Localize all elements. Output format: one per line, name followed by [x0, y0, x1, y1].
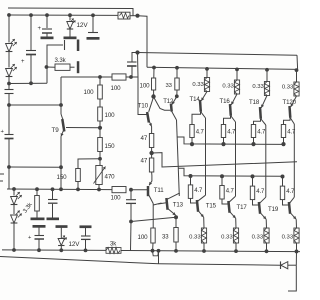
wire emitter drop T15 [203, 217, 205, 228]
wire to R6 [78, 159, 100, 169]
wire collector T18 [261, 119, 266, 194]
wire top inner rail [8, 14, 118, 16]
svg-text:4.7: 4.7 [286, 189, 295, 195]
node y68 x296.5 [295, 68, 299, 72]
wire rail bottom right [121, 251, 300, 252]
wire corner down right [288, 265, 296, 291]
LED D3 [11, 189, 22, 205]
node x78 y189 [76, 188, 80, 192]
node x177 y96 [175, 94, 179, 98]
svg-text:100: 100 [140, 83, 151, 90]
svg-text:0.33: 0.33 [192, 82, 204, 88]
node b x296 [295, 250, 299, 254]
wire collector join T21 [293, 194, 295, 197]
ground C11 [80, 225, 92, 228]
node b x85 [84, 249, 88, 253]
wire 4.7 to rail T18 [253, 138, 255, 145]
svg-text:4.7: 4.7 [256, 189, 265, 195]
svg-text:100: 100 [105, 112, 116, 119]
wire 4.7 to rail T14 [191, 138, 193, 145]
svg-text:33: 33 [166, 83, 173, 89]
zener D6 [58, 228, 67, 251]
wire left col mid [8, 105, 10, 134]
node rail144 x192.0 [190, 142, 194, 146]
wire T9 emitter drop [60, 167, 62, 189]
wire collector join T13 [178, 192, 180, 195]
resistor 0.33 lower T15 [189, 228, 206, 251]
wire T10-T12 base [154, 97, 171, 110]
wire D1-D2 [8, 52, 10, 68]
svg-text:0.33: 0.33 [252, 235, 264, 241]
svg-text:T9: T9 [52, 127, 60, 134]
node rail176 x252.5 [251, 174, 255, 178]
transistor T19 [259, 197, 279, 219]
wire rail y167 [9, 166, 61, 168]
diode D7 [281, 261, 288, 269]
wire top outer rail [8, 8, 133, 16]
wire D5 down [69, 29, 71, 37]
svg-text:0.33: 0.33 [189, 235, 201, 241]
wire collector T120 [290, 118, 294, 194]
node b x204 [202, 249, 206, 253]
node b x39 [37, 248, 41, 252]
node x131 y221 [129, 220, 133, 224]
wire 33 to node [176, 90, 178, 96]
capacitor C5 plate [77, 61, 80, 73]
svg-text:470: 470 [105, 174, 116, 181]
svg-text:0.33: 0.33 [252, 84, 264, 90]
wire 4.7 to rail T16 [223, 138, 225, 145]
wire x138 drop [138, 53, 148, 115]
svg-text:100: 100 [84, 89, 95, 96]
ground R8 [31, 218, 45, 221]
wire collector join T15 [205, 194, 207, 195]
transistor T11 [148, 176, 164, 229]
svg-text:33: 33 [162, 235, 169, 241]
resistor R14 100 [138, 228, 156, 251]
wire T12 collector col [177, 120, 180, 196]
wire x70 stub [69, 15, 71, 21]
wire x31 stub [30, 15, 32, 50]
wire y189 [7, 188, 112, 191]
node rail144 x283.5 [281, 142, 285, 146]
transistor T16 [220, 94, 238, 116]
node rail176 x222.0 [220, 174, 224, 178]
wire line2 right [159, 264, 281, 265]
svg-text:T15: T15 [206, 203, 217, 210]
node x131 y189 [129, 188, 133, 192]
node x99 y189 [97, 188, 101, 192]
svg-text:3.3k: 3.3k [22, 201, 34, 214]
node y52 x137 [135, 50, 139, 54]
node b x158 [157, 249, 161, 253]
wire x61 riser [60, 77, 62, 105]
wire jog under rail [153, 251, 159, 256]
resistor 0.33 upper T120 [282, 69, 299, 96]
transistor T120 [283, 96, 297, 118]
node y68 x237 [235, 67, 239, 71]
wire left col upper [8, 15, 10, 43]
capacitor C4 [65, 40, 80, 52]
node x37 y189 [35, 187, 39, 191]
capacitor C7 [1, 129, 14, 167]
resistor R8 3.3k [22, 189, 39, 217]
resistor R6 150 [57, 169, 81, 190]
capacitor C11 [81, 228, 91, 251]
node x61 y189 [59, 187, 63, 191]
transistor T9 [52, 105, 65, 167]
ground D5 [64, 37, 77, 40]
svg-text:12V: 12V [69, 241, 81, 248]
wire right edge stub [296, 55, 299, 69]
wire supply drop [138, 16, 148, 68]
svg-text:T11: T11 [154, 187, 164, 194]
transistor T15 [197, 195, 217, 217]
wire base T15 [191, 198, 197, 203]
resistor 4.7 lower T17 [220, 186, 235, 200]
wire emitter drop T21 [295, 219, 297, 228]
resistor R13 100h [111, 187, 127, 202]
svg-text:4.7: 4.7 [227, 130, 236, 136]
wire stub T17 [221, 176, 223, 186]
ground D6 [56, 225, 68, 228]
svg-text:4.7: 4.7 [226, 189, 235, 195]
wire drive rail lower [178, 168, 282, 176]
node rail x31 [29, 13, 33, 17]
node x131 y77 [129, 75, 133, 79]
svg-text:+: + [21, 59, 25, 65]
node rail176 x190.5 [189, 174, 193, 178]
wire C3 down [30, 55, 32, 83]
zener D5 [67, 19, 76, 30]
svg-text:+: + [38, 26, 42, 32]
node x14 y189 [12, 187, 16, 191]
wire collector T14 [201, 112, 206, 194]
node b x176 [174, 249, 178, 253]
wire D2 down [8, 77, 10, 84]
wire x47 stub [46, 15, 48, 28]
svg-text:4.7: 4.7 [196, 130, 205, 136]
svg-text:T19: T19 [268, 206, 279, 213]
capacitor C2 [88, 32, 98, 34]
svg-text:T17: T17 [237, 204, 248, 211]
wire base T13 [158, 203, 166, 204]
node x100 y77 [98, 75, 102, 79]
node y68 x207 [205, 67, 209, 71]
wire emitter drop T17 [235, 218, 237, 228]
svg-text:0.33: 0.33 [282, 235, 294, 241]
resistor R3 100 [84, 77, 103, 107]
node T10 collector [151, 94, 155, 98]
resistor R5 150 [98, 128, 115, 159]
transistor T12 [163, 97, 177, 121]
svg-text:100: 100 [138, 234, 149, 241]
svg-text:4.7: 4.7 [257, 130, 266, 136]
node b x266 [265, 249, 269, 253]
node T13 emitter [174, 215, 178, 219]
resistor R2 100h [111, 74, 127, 92]
wire rail bottom left [2, 249, 106, 252]
svg-text:150: 150 [105, 143, 116, 150]
resistor 0.33 lower T21 [282, 228, 299, 251]
terminal dashes [0, 174, 4, 181]
node x9 y105 [7, 103, 11, 107]
svg-text:0.33: 0.33 [221, 235, 233, 241]
node x31 y83 [29, 81, 33, 85]
wire x93 stub [92, 15, 94, 32]
node b x61 [59, 248, 63, 252]
wire output rail [152, 153, 297, 167]
trimmer R7 470 [94, 159, 116, 190]
wire output stub right [295, 252, 297, 266]
resistor 4.7 lower T21 [280, 186, 295, 200]
resistor 0.33 lower T17 [221, 228, 238, 251]
resistor R9 3k [106, 242, 121, 254]
wire T13 emitter down [175, 217, 177, 227]
wire y222 to T13 [131, 217, 176, 221]
ground C9 [47, 218, 60, 221]
svg-text:150: 150 [57, 174, 68, 181]
ground C1 [41, 37, 54, 40]
wire base T18 [254, 119, 261, 125]
node b x14 [12, 248, 16, 252]
resistor R12 47 [141, 153, 154, 176]
wire emitter drop T19 [265, 219, 267, 228]
node y68 x267 [265, 68, 269, 72]
svg-text:100: 100 [111, 85, 122, 92]
node x100 y159 [98, 157, 102, 161]
capacitor C12 [126, 190, 136, 222]
wire y77 end [131, 76, 138, 78]
label 12V top [77, 22, 89, 29]
wire line2 left [0, 257, 159, 264]
svg-text:T14: T14 [190, 96, 201, 103]
node supply A [135, 14, 139, 18]
svg-text:T16: T16 [220, 98, 231, 105]
node x52 y189 [51, 187, 55, 191]
wire base T17 [222, 199, 228, 204]
node rail x47 [45, 13, 49, 17]
wire base T21 [283, 200, 289, 205]
capacitor C3 [21, 51, 36, 66]
transistor T14 [190, 92, 208, 112]
wire R2 out [126, 76, 131, 78]
resistor R4 100 [98, 107, 115, 128]
wire D3-D4 [13, 205, 15, 215]
wire stub T19 [252, 176, 254, 186]
wire T11 emitter tee [153, 203, 161, 205]
node rail x93 [91, 13, 95, 17]
svg-text:T10: T10 [138, 103, 149, 110]
resistor 4.7 upper T16 [221, 125, 236, 138]
capacitor C1 [38, 26, 53, 33]
wire C12 drop [130, 222, 133, 251]
label 12V bottom [69, 241, 81, 248]
wire collector T16 [231, 116, 236, 194]
svg-text:0.33: 0.33 [282, 84, 294, 90]
wire line2 stub [158, 251, 160, 264]
resistor 4.7 upper T120 [281, 125, 296, 138]
resistor R15 33 [166, 68, 180, 90]
wire diode out [288, 264, 297, 266]
resistor R16 33 lower [162, 228, 178, 251]
resistor 4.7 upper T18 [251, 125, 266, 138]
wire drive rail upper [177, 137, 284, 144]
resistor R10 100 [140, 67, 156, 96]
svg-text:T18: T18 [249, 99, 260, 106]
wire base T16 [224, 116, 231, 125]
wire y83 [9, 82, 47, 84]
svg-text:3.3k: 3.3k [55, 57, 67, 64]
capacitor C6 [5, 84, 14, 106]
wire x9 drop [8, 167, 10, 189]
capacitor C9 [48, 189, 58, 217]
transistor T21 [289, 197, 296, 219]
transistor T18 [249, 96, 267, 119]
node rail x70 [68, 13, 72, 17]
wire rail y68 [147, 67, 298, 69]
wire y77 [61, 76, 112, 78]
node b x236 [234, 249, 238, 253]
node x61 y167 [59, 165, 63, 169]
node x9 y167 [7, 165, 11, 169]
node y68 x154 [152, 66, 156, 70]
svg-text:47: 47 [141, 135, 148, 142]
svg-text:T13: T13 [173, 201, 184, 208]
wire T9 base [66, 127, 100, 129]
LED D4 [11, 211, 22, 224]
fuse W2 [118, 12, 130, 19]
wire stub T21 [282, 176, 284, 186]
svg-text:4.7: 4.7 [194, 188, 203, 194]
node b x152 [151, 249, 155, 253]
wire base T19 [253, 200, 259, 205]
wire rail Vp y52 [138, 53, 298, 56]
wire stub T15 [190, 176, 192, 185]
LED D2 [6, 64, 17, 77]
ground C2 [87, 37, 100, 40]
wire y105 [9, 104, 61, 106]
resistor 4.7 lower T19 [250, 186, 265, 200]
node x47 y67 [45, 65, 49, 69]
wire base T120 [284, 118, 291, 125]
wire x47 riser [47, 45, 63, 83]
node rail x9 [7, 13, 11, 17]
svg-text:+: + [28, 235, 32, 241]
transistor T17 [228, 196, 247, 218]
node rail176 x282.5 [281, 174, 285, 178]
node y68 x177 [175, 66, 179, 70]
node rail144 x223.5 [221, 142, 225, 146]
LED D1 [6, 39, 17, 52]
wire collector join T19 [265, 194, 267, 197]
resistor 4.7 lower T15 [188, 185, 203, 199]
node x100 y128 [98, 126, 102, 130]
svg-text:0.33: 0.33 [222, 83, 234, 89]
svg-text:100: 100 [111, 195, 122, 202]
capacitor C8 [127, 53, 138, 78]
capacitor C10 [28, 227, 44, 250]
node rail144 x253.5 [251, 142, 255, 146]
transistor T13 [166, 193, 183, 215]
resistor 4.7 upper T14 [190, 125, 205, 138]
svg-text:47: 47 [141, 158, 148, 165]
svg-text:+: + [1, 129, 5, 135]
wire D4 down [13, 223, 15, 250]
node x151 y153 [149, 151, 153, 155]
wire collector join T17 [235, 194, 237, 196]
resistor 0.33 upper T18 [252, 69, 269, 96]
wire y189 to T11 [131, 189, 148, 191]
wire fuse out [130, 15, 138, 17]
node x61 y105 [59, 103, 63, 107]
wire C1 down [46, 34, 48, 37]
resistor 0.33 upper T16 [222, 69, 239, 94]
wire base T14 [192, 112, 201, 125]
resistor R1 3.3k [47, 57, 75, 70]
ground C10 [33, 225, 46, 228]
resistor R11 47 [141, 134, 154, 153]
node x9 y83 [7, 82, 11, 86]
wire 4.7 to rail T120 [283, 138, 285, 145]
resistor 0.33 lower T19 [252, 228, 269, 251]
resistor 0.33 upper T14 [192, 68, 209, 91]
transistor T10 [138, 97, 154, 134]
svg-text:12V: 12V [77, 22, 89, 29]
